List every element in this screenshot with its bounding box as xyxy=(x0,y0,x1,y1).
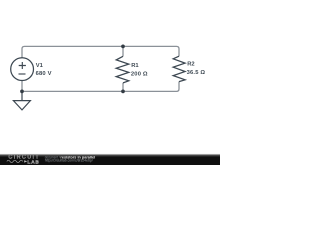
node A junction dot (R1 top) xyxy=(121,45,125,49)
svg-text:R2: R2 xyxy=(187,61,194,67)
svg-text:680 V: 680 V xyxy=(36,71,52,77)
svg-text:V1: V1 xyxy=(36,63,44,69)
wire: V1 top stub and top rail to node A xyxy=(22,46,123,58)
svg-text:LAB: LAB xyxy=(27,159,39,165)
node C junction dot (R1 bottom) xyxy=(121,90,125,94)
voltage source V1 xyxy=(11,58,34,81)
ground xyxy=(13,91,30,110)
wire: bottom rail from node B to R2 bottom xyxy=(22,82,179,92)
node B junction dot (V1/ground/bottom rail) xyxy=(20,90,24,94)
svg-text:36.5 Ω: 36.5 Ω xyxy=(187,70,206,76)
wire: R1 bottom stub xyxy=(122,83,124,92)
svg-text:200 Ω: 200 Ω xyxy=(131,71,148,77)
resistor R1 xyxy=(116,56,129,83)
CircuitLab logo: waveform arrowhead xyxy=(24,160,27,162)
resistor R2 xyxy=(173,56,185,81)
svg-text:R1: R1 xyxy=(131,63,139,69)
CircuitLab logo: waveform squiggle xyxy=(7,160,23,162)
svg-text:http;//circuitlab.com/c/8rs24e: http;//circuitlab.com/c/8rs24e6p/ xyxy=(45,159,93,163)
wire: V1 bottom stub xyxy=(21,80,23,91)
wire: top rail from node A to R2 top xyxy=(123,46,179,56)
wire: R1 top stub xyxy=(122,46,124,56)
